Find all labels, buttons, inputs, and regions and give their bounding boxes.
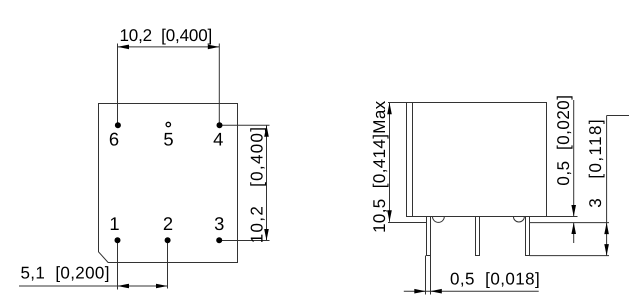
arrow bottom-dim left (118, 284, 130, 289)
pin right (side view) (526, 217, 530, 256)
arrow pin-width right (points left) (430, 289, 442, 294)
ext line pin tips right (530, 255, 610, 257)
dimension line 3 pin length (606, 116, 608, 256)
ext line pin width left edge down (425, 256, 427, 295)
arrow top-dim left (118, 45, 130, 50)
svg-text:0,5 [0,020]: 0,5 [0,020] (554, 95, 573, 186)
ext line pin width right edge down (430, 256, 432, 295)
arrowheads right view (387, 103, 609, 294)
pin middle (side view) (476, 217, 480, 256)
dimension texts left view (21, 26, 267, 283)
arrow right-dim up (264, 125, 269, 137)
dimension line height 10,5 (389, 103, 391, 222)
ext line body top to height dim (388, 102, 407, 104)
svg-text:10,2 [0,400]: 10,2 [0,400] (120, 26, 213, 45)
arrow pin-length up (604, 223, 609, 235)
arrow standoff top (points down to body bottom) (571, 205, 576, 217)
arrow right-dim down (264, 229, 269, 241)
extension + dimension thin lines (19, 44, 270, 290)
pin left (side view) (427, 217, 431, 256)
arrow height-dim down (387, 210, 392, 222)
svg-text:10,2 [0,400]: 10,2 [0,400] (248, 126, 267, 243)
arrowheads left view (118, 45, 269, 289)
svg-text:0,5 [0,018]: 0,5 [0,018] (450, 270, 540, 289)
pin number labels (109, 129, 224, 234)
wire ext line pin1 down (117, 243, 119, 290)
package side body rectangle (407, 103, 547, 217)
pin 1 dot (115, 237, 121, 243)
dimension line 0,5 standoff lower tail (573, 223, 575, 244)
ext line seating plane right (530, 222, 609, 224)
dimension line top 10,2 (118, 46, 220, 48)
wire ext line pin4 right (222, 124, 270, 126)
dimension line 0,5 standoff upper part (573, 100, 575, 217)
svg-text:5: 5 (163, 129, 173, 150)
svg-text:4: 4 (213, 129, 223, 150)
svg-text:3 [0,118]: 3 [0,118] (586, 118, 605, 208)
svg-text:1: 1 (109, 213, 119, 234)
dimension line bottom 5,1 (19, 285, 168, 287)
svg-text:10,5 [0,414]Max: 10,5 [0,414]Max (370, 100, 389, 233)
pin 5 open circle (166, 122, 170, 126)
arrow pin-width left (points right to tip) (414, 289, 426, 294)
pin 4 dot (217, 122, 223, 128)
standoff boss arc right (513, 217, 524, 223)
arrow height-dim up (387, 103, 392, 115)
package body outline with chamfered bottom-left corner (99, 104, 238, 263)
wire ext line pin4 up (218, 44, 220, 123)
pin 3 dot (216, 237, 222, 243)
dimension line 0,5 pin width (404, 290, 539, 292)
standoff boss arc left (433, 217, 445, 223)
svg-text:3: 3 (214, 213, 224, 234)
wire ext line pin3 right (222, 240, 270, 242)
pin 2 dot (165, 237, 171, 243)
svg-text:6: 6 (109, 129, 119, 150)
arrow standoff bottom (points up to seating) (571, 223, 576, 235)
wire ext line pin6 up (117, 44, 119, 123)
dimension texts right view (370, 95, 605, 289)
dimension line right 10,2 vertical (266, 125, 268, 240)
arrow top-dim right (208, 45, 220, 50)
body inner left face line (412, 103, 414, 217)
arrow pin-length down (604, 244, 609, 256)
svg-text:2: 2 (163, 213, 173, 234)
wire ext line pin2 down (167, 243, 169, 289)
ext line body bottom right (547, 216, 578, 218)
dim line 3 top stub (607, 115, 629, 117)
svg-text:5,1 [0,200]: 5,1 [0,200] (21, 264, 110, 283)
arrow bottom-dim right (156, 284, 168, 289)
ext line seating plane left (388, 222, 426, 224)
pin 6 dot (115, 122, 121, 128)
